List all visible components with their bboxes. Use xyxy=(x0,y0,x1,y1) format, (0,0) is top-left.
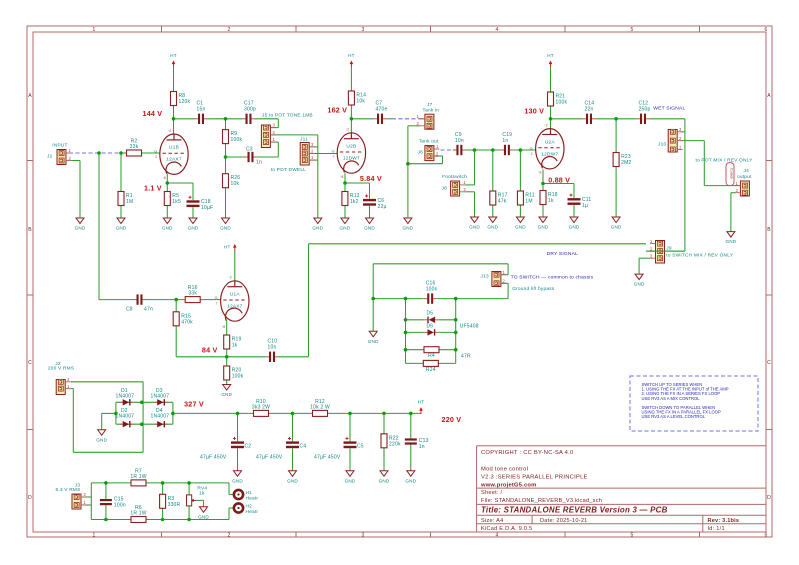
svg-text:C: C xyxy=(767,360,771,366)
svg-text:10k: 10k xyxy=(356,99,365,105)
svg-text:GND: GND xyxy=(198,514,209,519)
svg-text:130 V: 130 V xyxy=(524,107,544,116)
svg-text:ˢ8: ˢ8 xyxy=(163,176,166,180)
svg-text:220 V: 220 V xyxy=(442,415,462,424)
svg-text:J6: J6 xyxy=(418,150,424,156)
svg-text:1n: 1n xyxy=(502,138,508,144)
svg-text:1k2: 1k2 xyxy=(350,199,359,205)
svg-text:144 V: 144 V xyxy=(143,109,163,118)
svg-text:GND: GND xyxy=(188,226,199,231)
svg-text:300p: 300p xyxy=(244,107,256,113)
svg-text:1k: 1k xyxy=(199,491,205,497)
svg-text:File: STANDALONE_REVERB_V3.kic: File: STANDALONE_REVERB_V3.kicad_sch xyxy=(481,498,602,504)
svg-text:47µF 450V: 47µF 450V xyxy=(314,455,341,461)
svg-text:1n: 1n xyxy=(256,160,262,166)
svg-text:D5: D5 xyxy=(427,310,434,316)
svg-text:TO SWITCH — common to chassis: TO SWITCH — common to chassis xyxy=(511,274,594,280)
svg-text:C4: C4 xyxy=(300,443,307,449)
svg-text:INPUT: INPUT xyxy=(52,143,67,149)
svg-text:GND: GND xyxy=(162,226,173,231)
svg-text:6.3 V RMS: 6.3 V RMS xyxy=(56,487,81,493)
svg-text:Sheet: /: Sheet: / xyxy=(481,490,502,496)
svg-text:12AX7: 12AX7 xyxy=(166,157,182,163)
svg-text:R24: R24 xyxy=(426,367,436,373)
svg-text:GND: GND xyxy=(75,226,86,231)
svg-text:output: output xyxy=(737,174,752,180)
svg-text:C5: C5 xyxy=(357,443,364,449)
svg-text:H1: H1 xyxy=(246,490,253,496)
svg-text:1k: 1k xyxy=(548,198,554,204)
svg-text:D: D xyxy=(767,495,771,501)
svg-text:Date: 2025-10-21: Date: 2025-10-21 xyxy=(540,518,588,524)
svg-text:Id: 1/1: Id: 1/1 xyxy=(708,526,725,532)
svg-text:B: B xyxy=(28,227,32,233)
svg-text:1R 1W: 1R 1W xyxy=(130,511,146,517)
svg-text:1N4007: 1N4007 xyxy=(151,393,170,399)
svg-text:84 V: 84 V xyxy=(202,345,218,354)
svg-text:47µF 450V: 47µF 450V xyxy=(200,455,227,461)
svg-text:1R 1W: 1R 1W xyxy=(130,474,146,480)
svg-text:GND: GND xyxy=(116,226,127,231)
svg-text:6: 6 xyxy=(765,27,768,33)
svg-text:47R: 47R xyxy=(461,354,471,360)
svg-text:U1A: U1A xyxy=(230,292,241,298)
svg-text:0.88 V: 0.88 V xyxy=(548,176,570,185)
svg-text:Mod tone control: Mod tone control xyxy=(481,467,528,473)
svg-text:7: 7 xyxy=(216,301,218,305)
svg-text:1M: 1M xyxy=(525,199,532,205)
svg-text:C2: C2 xyxy=(245,443,252,449)
svg-text:Ground lift bypass: Ground lift bypass xyxy=(512,286,555,292)
svg-text:1: 1 xyxy=(93,533,96,539)
svg-text:Tank in: Tank in xyxy=(423,107,440,113)
svg-text:www.projetG5.com: www.projetG5.com xyxy=(480,482,537,488)
svg-text:DRY SIGNAL: DRY SIGNAL xyxy=(547,251,579,257)
svg-text:R4: R4 xyxy=(428,353,435,359)
svg-text:330R: 330R xyxy=(168,502,181,508)
svg-text:ˢ2: ˢ2 xyxy=(346,128,349,132)
svg-text:2: 2 xyxy=(531,152,533,156)
svg-text:J4: J4 xyxy=(744,168,750,174)
svg-text:GND: GND xyxy=(538,225,549,230)
svg-text:162 V: 162 V xyxy=(327,106,347,115)
svg-text:U1B: U1B xyxy=(169,145,179,151)
svg-text:UF5408: UF5408 xyxy=(460,324,479,330)
svg-text:Cursor: Cursor xyxy=(730,168,734,180)
svg-text:GND: GND xyxy=(725,239,736,244)
svg-text:A: A xyxy=(28,93,32,99)
svg-text:2: 2 xyxy=(228,27,231,33)
svg-text:100k: 100k xyxy=(556,100,568,106)
svg-text:GND: GND xyxy=(221,392,232,397)
svg-text:100n: 100n xyxy=(114,502,126,508)
svg-text:J8: J8 xyxy=(442,186,448,192)
svg-text:C: C xyxy=(28,360,32,366)
svg-text:1N4007: 1N4007 xyxy=(151,413,170,419)
svg-text:1: 1 xyxy=(93,27,96,33)
svg-text:GND: GND xyxy=(339,226,350,231)
svg-text:J7: J7 xyxy=(427,102,433,108)
svg-text:GND: GND xyxy=(368,339,379,344)
svg-text:47µF 450V: 47µF 450V xyxy=(256,455,283,461)
svg-text:12DW7: 12DW7 xyxy=(541,151,558,157)
svg-text:A: A xyxy=(767,93,771,99)
svg-text:Heatr: Heatr xyxy=(246,509,259,515)
svg-text:200 V RMS: 200 V RMS xyxy=(48,366,74,372)
svg-text:J9: J9 xyxy=(666,245,672,251)
svg-text:GND: GND xyxy=(611,225,622,230)
svg-text:HT: HT xyxy=(224,245,231,250)
svg-text:12DW7: 12DW7 xyxy=(343,156,360,162)
svg-text:ˢ2: ˢ2 xyxy=(168,129,171,133)
svg-text:Heatr: Heatr xyxy=(246,495,259,501)
svg-text:3: 3 xyxy=(362,27,365,33)
svg-text:100k: 100k xyxy=(232,374,244,380)
svg-text:V2.3 :SERIES PARALLEL PRINCIPL: V2.3 :SERIES PARALLEL PRINCIPLE xyxy=(481,475,588,481)
svg-text:15n: 15n xyxy=(197,107,206,113)
svg-text:RV4: RV4 xyxy=(197,485,207,491)
svg-text:33k: 33k xyxy=(188,291,197,297)
svg-text:Rev: 3.1bis: Rev: 3.1bis xyxy=(708,518,740,524)
svg-text:J10: J10 xyxy=(658,142,666,148)
svg-text:1k5: 1k5 xyxy=(172,199,181,205)
svg-text:HT: HT xyxy=(170,53,177,58)
svg-text:J1: J1 xyxy=(47,154,53,160)
svg-text:U2B: U2B xyxy=(346,144,356,150)
svg-text:J11: J11 xyxy=(300,137,308,143)
svg-text:U2A: U2A xyxy=(545,139,556,145)
svg-text:4: 4 xyxy=(496,27,499,33)
svg-text:GND: GND xyxy=(287,478,298,483)
svg-text:D6: D6 xyxy=(427,323,434,329)
svg-text:47n: 47n xyxy=(144,307,153,313)
svg-text:1k: 1k xyxy=(232,343,238,349)
svg-text:5.84 V: 5.84 V xyxy=(360,174,382,183)
svg-text:WET SIGNAL: WET SIGNAL xyxy=(653,105,685,111)
svg-text:100k: 100k xyxy=(231,137,243,143)
svg-text:GND: GND xyxy=(569,225,580,230)
svg-text:6: 6 xyxy=(765,533,768,539)
svg-text:120k: 120k xyxy=(179,99,191,105)
svg-text:GND: GND xyxy=(634,282,645,287)
svg-text:22µ: 22µ xyxy=(378,204,387,210)
svg-text:to POT MIX / REV ONLY: to POT MIX / REV ONLY xyxy=(696,158,754,164)
svg-text:470e: 470e xyxy=(376,107,388,113)
svg-text:to POT DWELL: to POT DWELL xyxy=(271,167,306,173)
svg-text:2: 2 xyxy=(228,533,231,539)
svg-text:1M: 1M xyxy=(126,199,133,205)
svg-text:C8: C8 xyxy=(126,307,133,313)
svg-text:10k 2 W: 10k 2 W xyxy=(310,404,330,410)
svg-text:GND: GND xyxy=(232,478,243,483)
svg-text:470k: 470k xyxy=(181,319,193,325)
svg-text:7: 7 xyxy=(333,155,335,159)
svg-text:USE RV3 AS A LEVEL CONTROL: USE RV3 AS A LEVEL CONTROL xyxy=(642,414,706,419)
svg-text:GND: GND xyxy=(345,478,356,483)
svg-text:GND: GND xyxy=(469,225,480,230)
svg-text:J5 to POT TONE 1MB: J5 to POT TONE 1MB xyxy=(262,113,313,119)
svg-text:HT: HT xyxy=(418,400,425,405)
svg-text:4: 4 xyxy=(496,533,499,539)
svg-text:327 V: 327 V xyxy=(184,400,204,409)
svg-text:GND: GND xyxy=(515,225,526,230)
svg-text:100n: 100n xyxy=(426,286,438,292)
svg-text:COPYRIGHT : CC BY-NC-SA 4.0: COPYRIGHT : CC BY-NC-SA 4.0 xyxy=(481,450,573,456)
svg-text:ˢ8: ˢ8 xyxy=(222,325,225,329)
svg-text:D: D xyxy=(28,495,32,501)
svg-text:Size: A4: Size: A4 xyxy=(481,518,504,524)
svg-text:B: B xyxy=(767,227,771,233)
svg-text:G: G xyxy=(154,150,157,154)
svg-text:3: 3 xyxy=(362,533,365,539)
svg-text:ˢ2: ˢ2 xyxy=(229,276,232,280)
svg-text:10µF: 10µF xyxy=(201,205,213,211)
svg-text:220k: 220k xyxy=(389,441,401,447)
svg-text:to SWITCH MIX / REV ONLY: to SWITCH MIX / REV ONLY xyxy=(666,253,733,259)
svg-text:33k: 33k xyxy=(130,144,139,150)
svg-text:GND: GND xyxy=(402,226,413,231)
svg-text:GND: GND xyxy=(220,226,231,231)
svg-text:12AX7: 12AX7 xyxy=(227,304,243,310)
svg-text:ˢ2: ˢ2 xyxy=(545,123,548,127)
svg-text:KiCad E.D.A. 9.0.5: KiCad E.D.A. 9.0.5 xyxy=(481,526,532,532)
svg-text:G: G xyxy=(215,296,218,300)
svg-text:250p: 250p xyxy=(639,107,651,113)
svg-text:10n: 10n xyxy=(455,138,464,144)
svg-text:ˢ8: ˢ8 xyxy=(538,171,541,175)
svg-text:5: 5 xyxy=(631,533,634,539)
svg-text:G: G xyxy=(332,149,335,153)
svg-text:H2: H2 xyxy=(246,504,253,510)
svg-text:GND: GND xyxy=(487,225,498,230)
svg-text:USE RV3 AS A MIX CONTROL: USE RV3 AS A MIX CONTROL xyxy=(642,396,701,401)
svg-text:22n: 22n xyxy=(585,107,594,113)
svg-text:GND: GND xyxy=(312,226,323,231)
svg-text:1N4007: 1N4007 xyxy=(116,413,135,419)
svg-text:10n: 10n xyxy=(268,345,277,351)
svg-text:Title: STANDALONE REVERB Versi: Title: STANDALONE REVERB Version 3 — PCB xyxy=(481,505,668,514)
svg-text:5: 5 xyxy=(631,27,634,33)
svg-text:1n: 1n xyxy=(419,444,425,450)
svg-text:J13: J13 xyxy=(481,274,489,280)
svg-text:47k: 47k xyxy=(498,199,507,205)
svg-text:1.1 V: 1.1 V xyxy=(144,183,162,192)
svg-text:1N4007: 1N4007 xyxy=(116,393,135,399)
svg-text:GND: GND xyxy=(379,478,390,483)
svg-text:1µ: 1µ xyxy=(582,203,588,209)
svg-text:GND: GND xyxy=(96,437,107,442)
svg-text:2: 2 xyxy=(155,155,157,159)
svg-text:GND: GND xyxy=(364,226,375,231)
svg-text:10k: 10k xyxy=(231,181,240,187)
svg-text:HT: HT xyxy=(547,53,554,58)
svg-text:C3: C3 xyxy=(246,147,253,153)
svg-text:ˢ8: ˢ8 xyxy=(340,175,343,179)
svg-text:HT: HT xyxy=(348,53,355,58)
svg-text:GND: GND xyxy=(405,478,416,483)
svg-text:2M2: 2M2 xyxy=(621,160,631,166)
svg-text:G: G xyxy=(530,146,533,150)
svg-text:3k3 2W: 3k3 2W xyxy=(252,404,270,410)
